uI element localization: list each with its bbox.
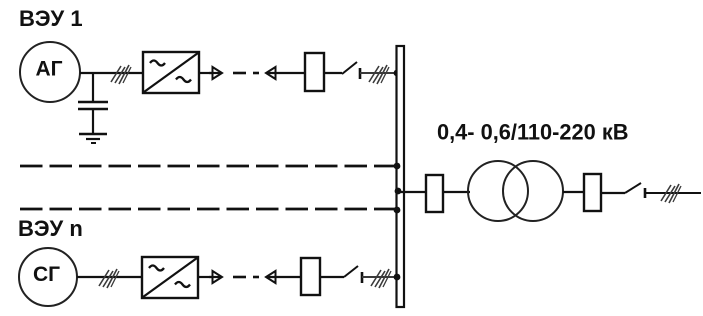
wire generator to converter [77, 276, 142, 278]
generator G2 СГ [19, 248, 77, 306]
breaker B2 [301, 258, 320, 295]
wire breaker to switch [324, 72, 342, 74]
wire converter to arrow [199, 72, 212, 74]
dashed feeder line 1 [20, 165, 396, 168]
wire transformer to breaker [563, 191, 584, 193]
capacitor C1 [92, 73, 94, 102]
ground [79, 133, 107, 136]
converter U2 [142, 257, 198, 298]
junction dot [394, 274, 401, 281]
wire switch to busbar [362, 276, 397, 278]
three-phase marks before busbar [371, 269, 391, 288]
switch S3 [625, 183, 641, 193]
breaker B4 [584, 174, 601, 211]
arrow right [213, 271, 223, 283]
wire arrow to breaker [267, 276, 301, 278]
wire converter to arrow [198, 276, 212, 278]
dashed feeder line 2 [20, 208, 396, 211]
wire breaker to switch [320, 276, 344, 278]
breaker B1 [305, 53, 324, 91]
wire breaker to transformer [443, 191, 470, 193]
wire busbar to breaker [398, 191, 426, 193]
dashed link [233, 276, 246, 279]
three-phase marks on outgoing line [661, 184, 681, 203]
junction dot [394, 70, 401, 77]
wire generator to converter [80, 72, 143, 74]
three-phase marks on generator wire [99, 269, 119, 288]
dashed link [233, 72, 246, 75]
svg-text:ВЭУ n: ВЭУ n [18, 216, 83, 241]
breaker B3 [426, 175, 443, 212]
converter U1 [143, 52, 199, 93]
svg-text:ВЭУ 1: ВЭУ 1 [19, 6, 83, 31]
arrow left [266, 271, 276, 283]
wire breaker to switch [601, 192, 625, 194]
junction dot main output [395, 188, 402, 195]
svg-text:0,4- 0,6/110-220 кВ: 0,4- 0,6/110-220 кВ [437, 120, 628, 145]
wire arrow to breaker [267, 72, 305, 74]
generator G1 АГ [20, 42, 80, 102]
arrow left [266, 67, 276, 79]
switch S2 [344, 266, 358, 277]
three-phase marks on generator wire [111, 65, 131, 84]
svg-text:АГ: АГ [36, 58, 63, 81]
wire switch to busbar [360, 72, 397, 74]
three-phase marks before busbar [369, 65, 389, 84]
junction dot [394, 207, 401, 214]
wire switch to line end [645, 192, 701, 194]
busbar [397, 46, 405, 307]
transformer T1 [468, 161, 528, 221]
arrow right [213, 67, 223, 79]
switch S1 [342, 62, 357, 74]
junction dot [394, 163, 401, 170]
svg-text:СГ: СГ [33, 263, 60, 286]
